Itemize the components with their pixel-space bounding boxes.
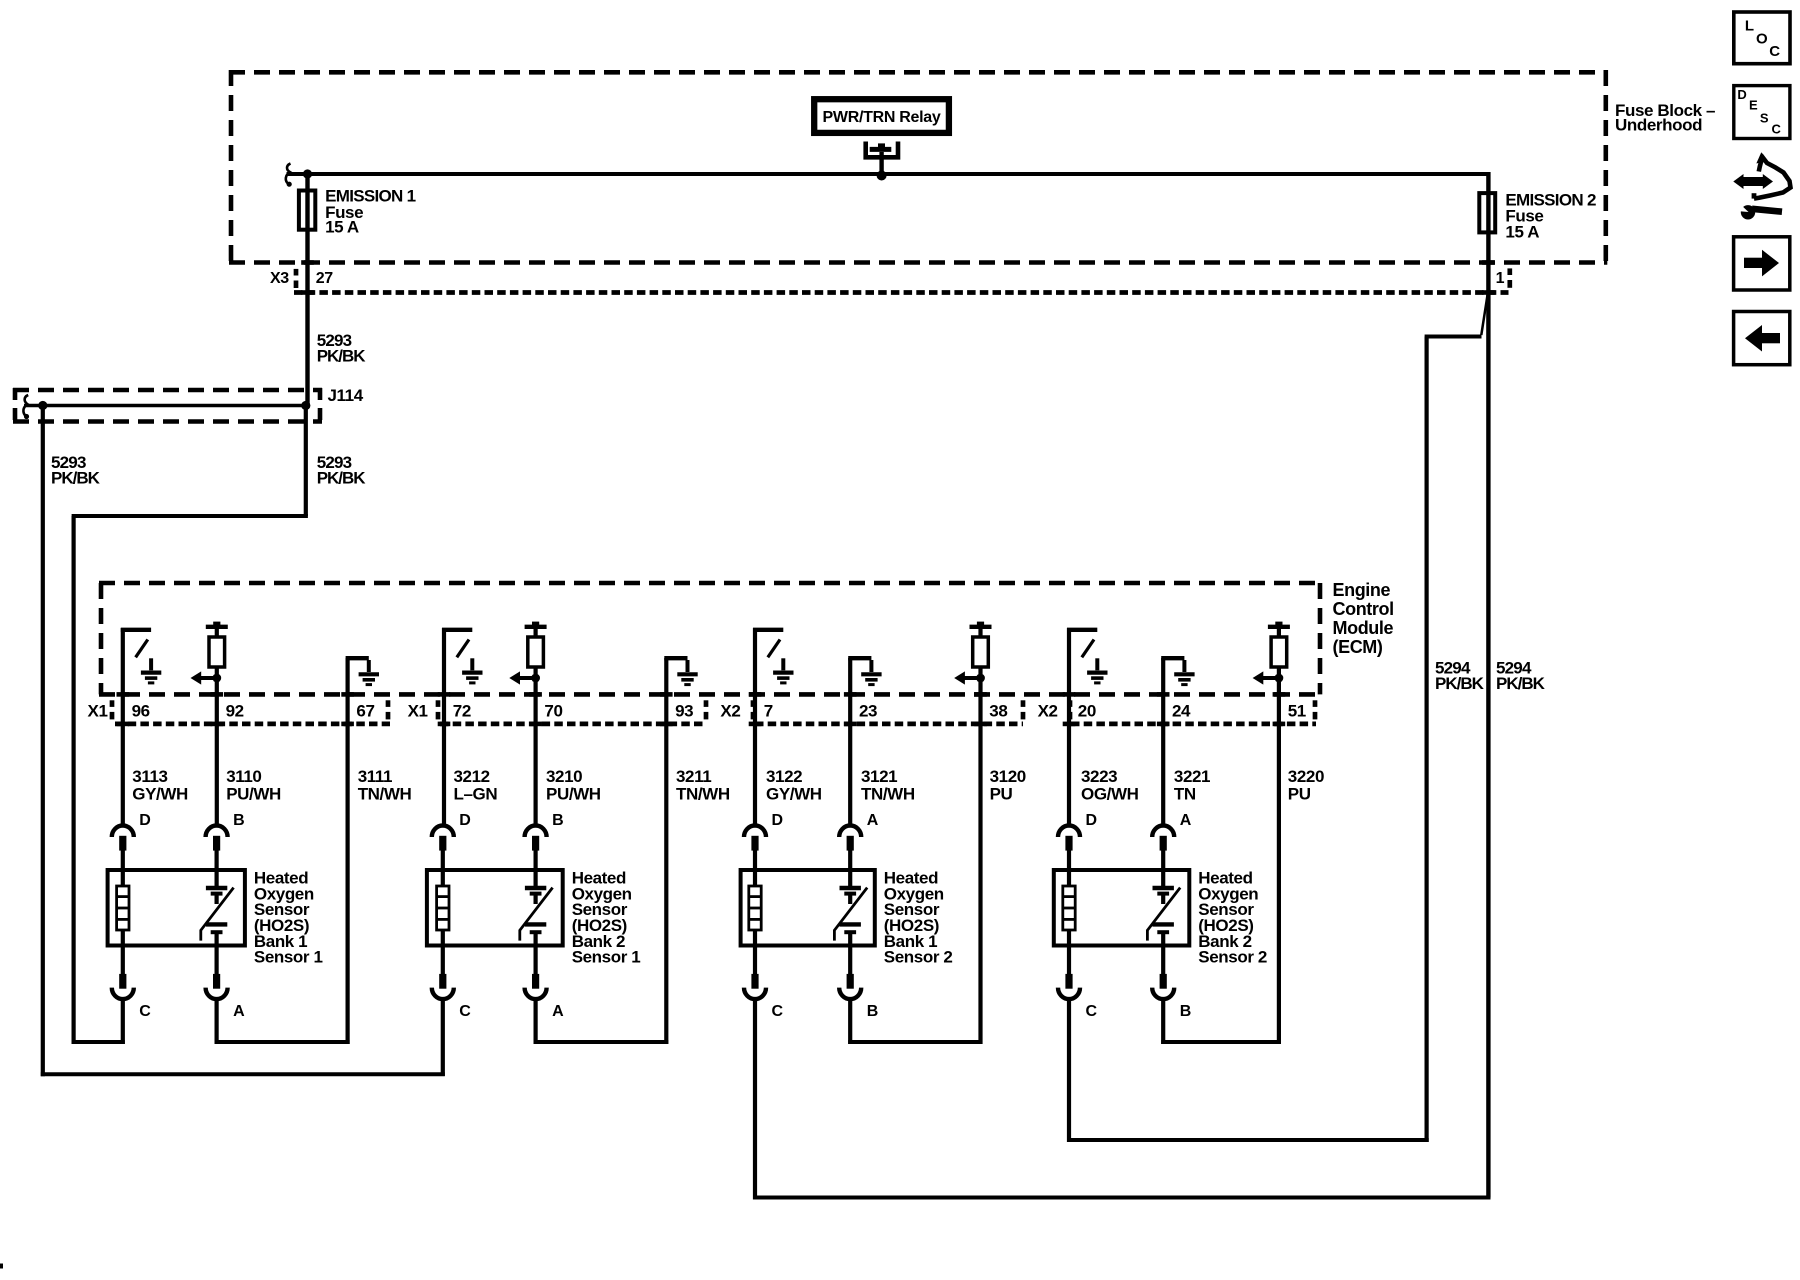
svg-text:PU/WH: PU/WH bbox=[226, 784, 281, 803]
connector pin D (top left) bbox=[744, 826, 766, 872]
wire 5293 PK/BK right branch: J114 to HO2S bank 1 sensor 1 pin C bbox=[72, 406, 308, 1045]
svg-text:C: C bbox=[1772, 121, 1782, 136]
connector pin A (bottom right) bbox=[206, 946, 228, 1000]
svg-text:23: 23 bbox=[859, 702, 877, 721]
wire 3120 PU pin 38 riser bbox=[978, 667, 982, 1044]
wire continuation hook at splice left end bbox=[23, 395, 28, 417]
svg-text:3223: 3223 bbox=[1081, 767, 1117, 786]
wire label 3221 TN bbox=[1174, 767, 1210, 803]
svg-text:X2: X2 bbox=[1038, 702, 1058, 721]
junction dot J114 left bbox=[38, 401, 47, 410]
wire HO2S B1S1 pin C down to 5293 jog bbox=[121, 999, 125, 1044]
svg-text:TN: TN bbox=[1174, 784, 1196, 803]
svg-text:O: O bbox=[1756, 30, 1768, 47]
svg-text:D: D bbox=[1737, 87, 1746, 102]
fuse block underhood dashed box bbox=[229, 70, 1607, 263]
ECM internal switch (driver) above pin 72 bbox=[442, 630, 483, 683]
connector pin D (top left) bbox=[1058, 826, 1080, 872]
connector pin B (bottom right) bbox=[1152, 946, 1174, 1000]
wire 3223 OG/WH pin 20 to HO2S B2S2 pin D bbox=[1067, 628, 1071, 825]
connector crossing ticks ECM pins bbox=[117, 692, 1286, 726]
wire HO2S B2S2 pin C down to 5294 branch bbox=[1067, 999, 1071, 1142]
ECM internal switch (driver) above pin 20 bbox=[1067, 630, 1108, 683]
label Engine Control Module (ECM) bbox=[1333, 580, 1394, 657]
label Heated Oxygen Sensor (HO2S) Bank 1 Sensor 1 bbox=[254, 869, 323, 967]
icon button DESC bbox=[1734, 86, 1790, 139]
svg-text:15 A: 15 A bbox=[325, 218, 359, 237]
svg-text:51: 51 bbox=[1288, 702, 1306, 721]
connector pin C (bottom left) bbox=[112, 946, 134, 1000]
svg-text:93: 93 bbox=[675, 702, 693, 721]
ECM internal switch (driver) above pin 7 bbox=[753, 630, 794, 683]
wire label 3220 PU bbox=[1288, 767, 1324, 803]
wire label 3212 L-GN bbox=[454, 767, 498, 803]
connector pin B (top right) bbox=[525, 826, 547, 872]
connector pin C (bottom left) bbox=[1058, 946, 1080, 1000]
connector pin A (top right) bbox=[1152, 826, 1174, 872]
connector pin A (top right) bbox=[839, 826, 861, 872]
engine control module ECM dashed box bbox=[99, 583, 1322, 694]
ECM internal ground above pin 93 bbox=[664, 658, 697, 684]
wire label 3111 TN/WH bbox=[358, 767, 412, 803]
wire label 5293 PK/BK (left) bbox=[51, 453, 101, 488]
pin letter labels sensor 4 bbox=[1086, 812, 1192, 1020]
pin letter labels sensor 2 bbox=[459, 812, 564, 1020]
HO2S heater element on pin D wire bbox=[749, 871, 761, 946]
svg-text:A: A bbox=[233, 1003, 245, 1020]
wire label 3121 TN/WH bbox=[861, 767, 915, 803]
svg-text:3110: 3110 bbox=[226, 767, 261, 786]
svg-text:70: 70 bbox=[544, 702, 562, 721]
svg-text:C: C bbox=[1086, 1003, 1098, 1020]
splice J114 dashed box bbox=[13, 388, 322, 424]
svg-text:24: 24 bbox=[1172, 702, 1191, 721]
wire 5294 PK/BK branch from EMISSION 2 fuse to HO2S bank 2 sensor 2 pin C bbox=[1067, 295, 1488, 1143]
label EMISSION 1 Fuse 15 A bbox=[325, 186, 416, 236]
wire label 3120 PU bbox=[990, 767, 1026, 803]
svg-text:3220: 3220 bbox=[1288, 767, 1324, 786]
svg-text:3111: 3111 bbox=[358, 767, 392, 786]
svg-text:PWR/TRN Relay: PWR/TRN Relay bbox=[823, 109, 941, 126]
heated oxygen sensor HO2S Bank 2 Sensor 2 box bbox=[1054, 870, 1190, 946]
svg-text:Module: Module bbox=[1333, 618, 1394, 638]
svg-text:B: B bbox=[867, 1003, 879, 1020]
svg-text:Underhood: Underhood bbox=[1615, 116, 1702, 135]
svg-text:Sensor 1: Sensor 1 bbox=[572, 948, 641, 967]
wire from bus down through EMISSION 2 fuse to pin 1 and down to HO2S bank 1 sensor 2 pin C bbox=[1486, 172, 1490, 1198]
svg-text:B: B bbox=[1180, 1003, 1192, 1020]
heated oxygen sensor HO2S Bank 1 Sensor 1 box bbox=[108, 870, 245, 946]
connector pin B (top right) bbox=[206, 826, 228, 872]
wire HO2S B2S1 pin A low reference to pin 93 bbox=[534, 999, 669, 1044]
svg-text:GY/WH: GY/WH bbox=[132, 784, 188, 803]
svg-text:3122: 3122 bbox=[766, 767, 802, 786]
icon button LOC bbox=[1734, 12, 1790, 64]
fuse EMISSION 1 15 A bbox=[299, 191, 315, 230]
svg-text:15 A: 15 A bbox=[1505, 222, 1539, 241]
svg-text:Engine: Engine bbox=[1333, 580, 1391, 600]
wire HO2S B2S1 pin C down to 5293 left branch bbox=[441, 999, 445, 1076]
wire 3110 PU/WH pin 92 to HO2S B1S1 pin B bbox=[215, 667, 219, 825]
svg-text:PK/BK: PK/BK bbox=[1496, 674, 1546, 693]
icon: double arrow with wrench (view tool) bbox=[1733, 152, 1790, 219]
svg-text:J114: J114 bbox=[328, 386, 364, 405]
label EMISSION 2 Fuse 15 A bbox=[1505, 191, 1596, 242]
wire 3121 TN/WH pin 23 to HO2S B1S2 pin A bbox=[848, 658, 852, 825]
svg-text:C: C bbox=[459, 1003, 471, 1020]
wire HO2S B2S2 pin B signal to pin 51 bbox=[1161, 999, 1281, 1044]
HO2S heater element on pin D wire bbox=[1063, 871, 1075, 946]
wire 5293 PK/BK left branch: J114 to HO2S bank 2 sensor 1 pin C bbox=[41, 406, 445, 1077]
connector pin B (bottom right) bbox=[839, 946, 861, 1000]
fuse EMISSION 2 15 A bbox=[1479, 193, 1495, 232]
connector pin D (top left) bbox=[432, 826, 454, 872]
svg-text:X3: X3 bbox=[270, 270, 289, 287]
svg-text:3212: 3212 bbox=[454, 767, 490, 786]
wire continuation hook at bus left end bbox=[286, 164, 291, 185]
connector row X3 dotted line bbox=[294, 268, 1510, 292]
splice bar J114 bbox=[24, 404, 306, 408]
svg-text:3113: 3113 bbox=[132, 767, 167, 786]
wire label 3211 TN/WH bbox=[676, 767, 730, 803]
wire: fused B+ bus from relay output bbox=[287, 172, 1491, 176]
svg-text:(ECM): (ECM) bbox=[1333, 637, 1383, 657]
svg-text:D: D bbox=[459, 812, 471, 829]
svg-text:A: A bbox=[867, 812, 879, 829]
HO2S sensing element (cell) on pin B wire bbox=[520, 871, 553, 946]
connector crossing ticks fuse block bbox=[301, 260, 1495, 295]
wire 3211 TN/WH pin 93 riser bbox=[664, 658, 668, 1044]
wire 3122 GY/WH pin 7 to HO2S B1S2 pin D bbox=[753, 628, 757, 825]
svg-text:B: B bbox=[233, 812, 245, 829]
wire label 5294 PK/BK (right) bbox=[1496, 659, 1546, 694]
svg-text:PU/WH: PU/WH bbox=[546, 784, 601, 803]
icon button next page (right arrow) bbox=[1734, 237, 1790, 290]
svg-text:D: D bbox=[1086, 812, 1098, 829]
svg-text:TN/WH: TN/WH bbox=[676, 784, 730, 803]
relay output terminal symbol bbox=[866, 142, 898, 175]
connector pin A (bottom right) bbox=[525, 946, 547, 1000]
svg-text:Sensor 1: Sensor 1 bbox=[254, 948, 323, 967]
svg-text:D: D bbox=[139, 812, 151, 829]
svg-text:X1: X1 bbox=[88, 702, 108, 721]
ECM internal pull-up resistor and output arrow above pin 70 bbox=[509, 622, 546, 685]
svg-text:PK/BK: PK/BK bbox=[1435, 674, 1485, 693]
wire 3221 TN pin 24 to HO2S B2S2 pin A bbox=[1161, 658, 1165, 825]
svg-text:L–GN: L–GN bbox=[454, 784, 498, 803]
wire HO2S B1S2 pin B signal to pin 38 bbox=[848, 999, 982, 1044]
svg-text:A: A bbox=[1180, 812, 1192, 829]
svg-text:PK/BK: PK/BK bbox=[51, 468, 101, 487]
svg-text:3120: 3120 bbox=[990, 767, 1026, 786]
svg-text:C: C bbox=[772, 1003, 784, 1020]
ECM internal ground above pin 23 bbox=[848, 658, 881, 684]
ECM internal pull-up resistor and output arrow above pin 38 bbox=[954, 622, 991, 685]
svg-text:TN/WH: TN/WH bbox=[861, 784, 915, 803]
wire HO2S B1S1 pin A low reference to pin 67 bbox=[215, 999, 350, 1044]
wire label 3122 GY/WH bbox=[766, 767, 822, 803]
svg-text:X1: X1 bbox=[408, 702, 428, 721]
ECM internal pull-up resistor and output arrow above pin 92 bbox=[191, 622, 228, 685]
wire from bus down to EMISSION 1 fuse and connector pin 27 bbox=[305, 174, 309, 406]
HO2S heater element on pin D wire bbox=[117, 871, 129, 946]
svg-text:C: C bbox=[139, 1003, 151, 1020]
junction dot relay output to bus bbox=[877, 171, 887, 181]
wire label 3113 GY/WH bbox=[132, 767, 188, 803]
ECM internal ground above pin 24 bbox=[1161, 658, 1194, 684]
svg-text:3210: 3210 bbox=[546, 767, 582, 786]
stray mark bottom left corner bbox=[0, 1264, 3, 1269]
svg-text:Sensor 2: Sensor 2 bbox=[884, 948, 953, 967]
connector pin C (bottom left) bbox=[432, 946, 454, 1000]
svg-text:B: B bbox=[552, 812, 564, 829]
svg-text:C: C bbox=[1769, 43, 1780, 60]
svg-text:7: 7 bbox=[764, 702, 773, 721]
svg-text:X2: X2 bbox=[720, 702, 740, 721]
svg-text:A: A bbox=[552, 1003, 564, 1020]
svg-text:67: 67 bbox=[356, 702, 374, 721]
svg-text:3211: 3211 bbox=[676, 767, 711, 786]
svg-text:L: L bbox=[1745, 18, 1754, 35]
svg-text:20: 20 bbox=[1078, 702, 1096, 721]
svg-text:D: D bbox=[772, 812, 784, 829]
svg-text:PU: PU bbox=[1288, 784, 1311, 803]
wire label 3210 PU/WH bbox=[546, 767, 601, 803]
svg-text:1: 1 bbox=[1496, 270, 1505, 287]
relay K: PWR/TRN Relay box bbox=[814, 99, 949, 133]
svg-text:72: 72 bbox=[453, 702, 471, 721]
wire label 5293 PK/BK (right) bbox=[317, 453, 367, 488]
icon button previous page (left arrow) bbox=[1734, 312, 1790, 365]
HO2S sensing element (cell) on pin A wire bbox=[834, 871, 867, 946]
label Heated Oxygen Sensor (HO2S) Bank 2 Sensor 1 bbox=[572, 869, 641, 967]
junction dot J114 right bbox=[301, 401, 310, 410]
pin letter labels sensor 3 bbox=[772, 812, 879, 1020]
svg-text:38: 38 bbox=[989, 702, 1007, 721]
heated oxygen sensor HO2S Bank 2 Sensor 1 box bbox=[427, 870, 563, 946]
svg-text:PK/BK: PK/BK bbox=[317, 468, 367, 487]
HO2S sensing element (cell) on pin B wire bbox=[201, 871, 234, 946]
connector pin D (top left) bbox=[112, 826, 134, 872]
svg-text:3121: 3121 bbox=[861, 767, 897, 786]
svg-text:Control: Control bbox=[1333, 599, 1394, 619]
ECM internal ground above pin 67 bbox=[346, 658, 379, 684]
junction dot bus to EMISSION 1 fuse bbox=[303, 169, 312, 178]
pin letter labels sensor 1 bbox=[139, 812, 245, 1020]
ECM internal switch (driver) above pin 96 bbox=[121, 630, 162, 683]
svg-text:Sensor 2: Sensor 2 bbox=[1198, 948, 1267, 967]
svg-text:PK/BK: PK/BK bbox=[317, 346, 367, 365]
svg-text:27: 27 bbox=[316, 270, 333, 287]
svg-text:3221: 3221 bbox=[1174, 767, 1210, 786]
wire label 5294 PK/BK (left) bbox=[1435, 659, 1485, 694]
label Heated Oxygen Sensor (HO2S) Bank 2 Sensor 2 bbox=[1198, 869, 1267, 967]
wire: bottom run EMISSION 2 to HO2S bank 1 sensor 2 pin C bbox=[753, 1196, 1491, 1200]
wire 3220 PU pin 51 riser bbox=[1277, 667, 1281, 1044]
svg-text:96: 96 bbox=[132, 702, 150, 721]
wire label 3110 PU/WH bbox=[226, 767, 281, 803]
wire HO2S B1S2 pin C down to 5294 bottom run bbox=[753, 999, 757, 1200]
svg-text:PU: PU bbox=[990, 784, 1013, 803]
svg-text:E: E bbox=[1749, 97, 1758, 112]
ECM connector dotted rows X1 X1 X2 X2 bbox=[112, 700, 1316, 724]
ECM internal pull-up resistor and output arrow above pin 51 bbox=[1253, 622, 1290, 685]
svg-text:TN/WH: TN/WH bbox=[358, 784, 412, 803]
svg-text:92: 92 bbox=[226, 702, 244, 721]
HO2S sensing element (cell) on pin A wire bbox=[1147, 871, 1180, 946]
svg-text:S: S bbox=[1760, 110, 1769, 125]
wire 3212 L-GN pin 72 to HO2S B2S1 pin D bbox=[442, 628, 446, 825]
label Fuse Block - Underhood bbox=[1615, 101, 1715, 135]
wire 3113 GY/WH pin 96 to HO2S B1S1 pin D bbox=[121, 628, 125, 825]
wire label 5293 PK/BK (upper) bbox=[317, 331, 367, 366]
label Heated Oxygen Sensor (HO2S) Bank 1 Sensor 2 bbox=[884, 869, 953, 967]
heated oxygen sensor HO2S Bank 1 Sensor 2 box bbox=[741, 870, 875, 946]
wire 3210 PU/WH pin 70 to HO2S B2S1 pin B bbox=[533, 667, 537, 825]
HO2S heater element on pin D wire bbox=[437, 871, 449, 946]
wire 3111 TN/WH pin 67 riser bbox=[346, 658, 350, 1044]
connector pin C (bottom left) bbox=[744, 946, 766, 1000]
wire label 3223 OG/WH bbox=[1081, 767, 1139, 803]
svg-text:OG/WH: OG/WH bbox=[1081, 784, 1139, 803]
svg-text:GY/WH: GY/WH bbox=[766, 784, 822, 803]
